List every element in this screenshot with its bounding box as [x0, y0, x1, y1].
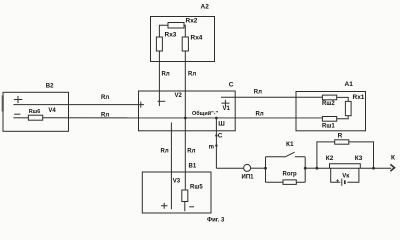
svg-text:Rл: Rл [187, 149, 195, 155]
svg-text:V2: V2 [175, 93, 183, 99]
node plus V2 [158, 93, 183, 101]
junction Sh top [215, 117, 218, 120]
svg-text:Vк: Vк [342, 173, 349, 179]
junction R right [372, 167, 375, 170]
svg-text:К1: К1 [286, 141, 294, 148]
svg-text:К2: К2 [326, 155, 334, 162]
svg-text:А2: А2 [201, 4, 210, 11]
wire [305, 167, 317, 169]
svg-text:Rл: Rл [161, 149, 169, 155]
block B1 [142, 172, 211, 213]
svg-text:Общий"-": Общий"-" [192, 110, 219, 117]
node minus B2 [14, 113, 20, 115]
resistor Rx3 [156, 32, 176, 52]
wire Rl upper left with terminal cross [13, 95, 144, 108]
wire main through contacts [317, 167, 374, 169]
wire [184, 202, 186, 212]
svg-text:Rш6: Rш6 [29, 109, 41, 115]
svg-text:V1: V1 [223, 106, 231, 112]
wire Sh stub down [216, 118, 225, 168]
svg-text:Rл: Rл [254, 90, 262, 96]
resistor R branch [317, 133, 374, 169]
node plus V1 [221, 100, 230, 112]
wire to output K [374, 155, 396, 172]
svg-text:А1: А1 [345, 81, 354, 88]
battery Vk branch [331, 168, 359, 186]
wire [184, 25, 185, 37]
resistor Rogr branch [266, 172, 306, 185]
svg-text:Rш2: Rш2 [322, 101, 335, 107]
junction common wire / lower wire [184, 117, 187, 120]
resistor Rx2 [168, 18, 198, 29]
resistor Rx4 [182, 35, 203, 52]
svg-text:С: С [229, 82, 234, 89]
resistor Rsh2 [322, 95, 337, 107]
svg-text:С: С [218, 133, 223, 140]
svg-text:Rл: Rл [256, 111, 264, 117]
svg-text:Rогр: Rогр [283, 172, 297, 178]
svg-text:Rл: Rл [188, 72, 196, 78]
node m [209, 144, 218, 150]
meter IP1 [242, 164, 255, 180]
resistor Rsh5 [182, 185, 204, 202]
svg-text:Rх1: Rх1 [353, 94, 365, 101]
wire to meter [216, 167, 243, 169]
svg-text:Rл: Rл [101, 112, 109, 118]
svg-text:Ш: Ш [218, 121, 225, 128]
svg-text:Rх3: Rх3 [165, 32, 177, 39]
contacts K2 K3 bridge [326, 155, 363, 168]
node plus B2 [14, 96, 22, 103]
svg-text:m: m [209, 145, 214, 151]
node minus B1 [189, 206, 194, 208]
svg-text:R: R [338, 133, 343, 140]
resistor Rsh1 [322, 117, 337, 130]
svg-text:К: К [391, 155, 395, 162]
switch K1 branch [266, 141, 306, 182]
scan artifact left edge [2, 96, 4, 112]
svg-text:В2: В2 [46, 83, 54, 89]
svg-text:Rш5: Rш5 [190, 185, 203, 191]
svg-text:К3: К3 [355, 155, 363, 162]
svg-text:V3: V3 [173, 179, 181, 185]
svg-text:Rл: Rл [162, 72, 170, 78]
svg-text:Фиг. 3: Фиг. 3 [207, 218, 225, 224]
wire Rl left lead down to B1 [161, 123, 172, 210]
block A1 [296, 92, 366, 131]
svg-text:+: + [336, 178, 339, 184]
svg-text:V4: V4 [48, 108, 56, 114]
svg-text:ИП1: ИП1 [242, 175, 255, 181]
junction K1 right [304, 167, 307, 170]
wire [251, 167, 266, 169]
node C [215, 133, 223, 140]
junction K1 left [264, 167, 267, 170]
wire Rl upper right from V1 to Rsh2 [221, 90, 322, 98]
svg-text:Rх4: Rх4 [191, 35, 203, 42]
block A2 [151, 17, 215, 62]
wire [13, 117, 28, 119]
block B2 [3, 92, 69, 131]
resistor Rsh6 [28, 109, 42, 120]
svg-text:Rш1: Rш1 [322, 124, 335, 130]
svg-text:Rл: Rл [101, 95, 109, 101]
wire Rl common lead from A2 down through box to B1 resistor [185, 51, 196, 190]
svg-text:В1: В1 [189, 163, 197, 169]
resistor Rx1 [345, 94, 364, 116]
svg-text:Rх2: Rх2 [186, 18, 198, 25]
wire [337, 116, 349, 119]
wire [159, 25, 168, 37]
block V (measuring box) [139, 91, 236, 131]
wire Rl left lead from A2 down to V2 plus [159, 51, 169, 106]
wire Rl lower long line B2 to A1 [43, 112, 323, 118]
wire [337, 97, 349, 101]
node plus B1 [161, 203, 168, 209]
junction R left [316, 167, 319, 170]
